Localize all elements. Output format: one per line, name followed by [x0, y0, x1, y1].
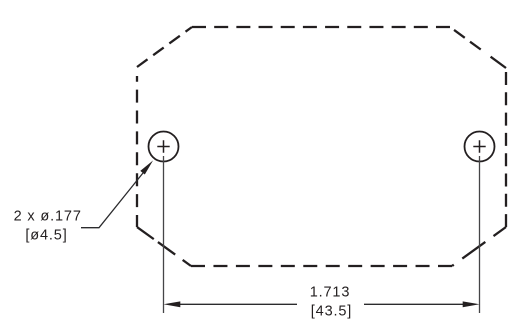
dimension arrow right	[463, 301, 480, 307]
leader arrowhead	[140, 161, 153, 175]
part outline bottom-right chamfer	[452, 227, 506, 266]
dimension line right segment	[364, 303, 464, 305]
part outline left edge	[136, 67, 138, 227]
extension line right	[479, 156, 481, 313]
part outline bottom edge	[191, 265, 452, 267]
dimension line left segment	[179, 303, 297, 305]
svg-text:[ø4.5]: [ø4.5]	[25, 228, 67, 244]
dimension arrow left	[164, 301, 181, 307]
part outline top-right chamfer	[450, 27, 506, 68]
part outline bottom-left chamfer	[137, 227, 191, 266]
hole circle right	[465, 132, 495, 162]
center mark left	[157, 140, 169, 152]
svg-text:[43.5]: [43.5]	[311, 303, 352, 319]
part outline right edge	[505, 68, 507, 227]
part outline top-left chamfer	[137, 27, 192, 67]
part outline top edge	[192, 26, 450, 28]
svg-text:1.713: 1.713	[310, 285, 351, 301]
leader line	[81, 169, 147, 228]
hole circle left	[149, 132, 179, 162]
center mark right	[473, 140, 485, 152]
extension line left	[163, 156, 165, 313]
svg-text:2 x ø.177: 2 x ø.177	[14, 209, 82, 225]
